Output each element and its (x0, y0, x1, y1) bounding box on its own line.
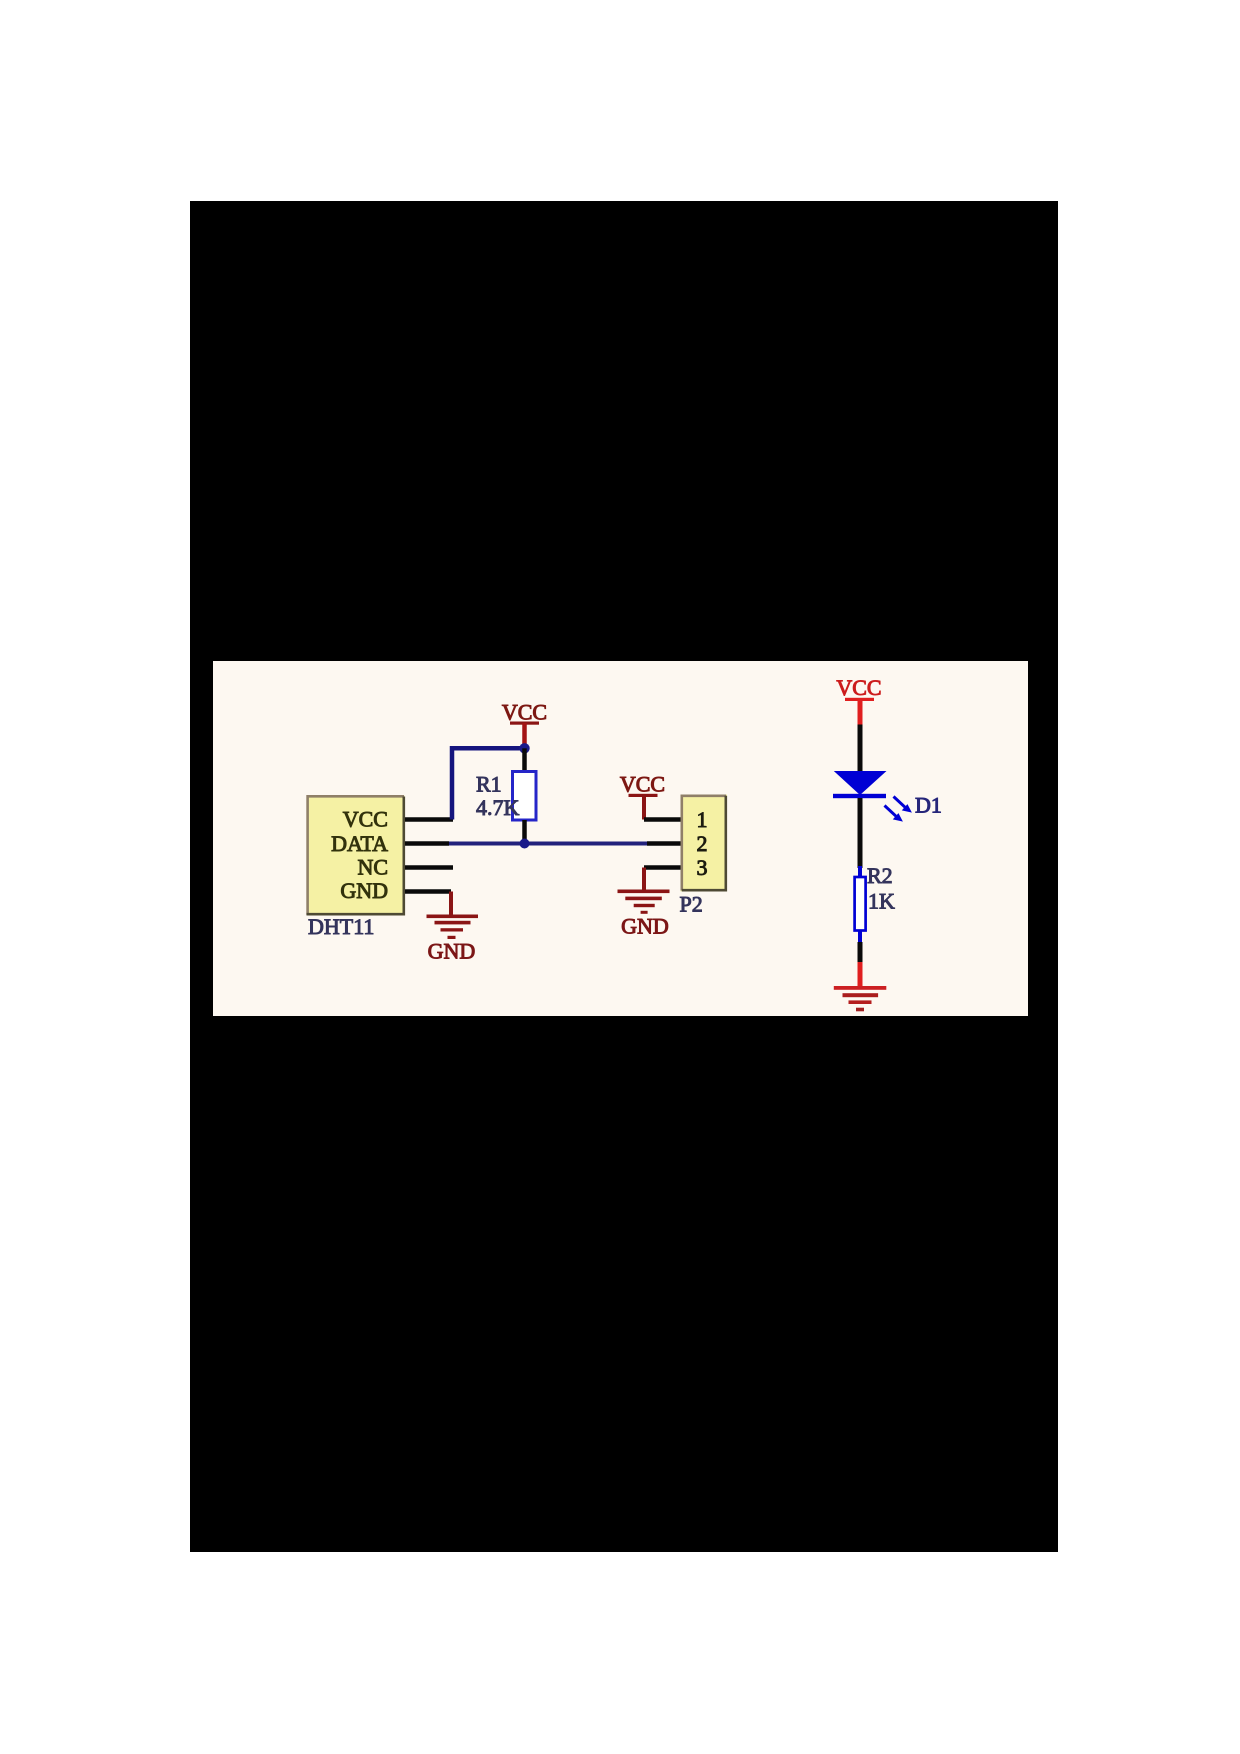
svg-text:NC: NC (357, 855, 388, 880)
svg-text:R2: R2 (867, 863, 893, 888)
svg-text:GND: GND (621, 914, 669, 939)
svg-text:VCC: VCC (620, 772, 665, 797)
svg-text:DATA: DATA (331, 831, 388, 856)
svg-text:P2: P2 (680, 892, 703, 917)
svg-text:3: 3 (697, 855, 708, 880)
svg-text:VCC: VCC (343, 807, 388, 832)
svg-text:DHT11: DHT11 (308, 914, 374, 939)
svg-text:1: 1 (697, 807, 708, 832)
svg-text:2: 2 (697, 831, 708, 856)
svg-text:GND: GND (340, 878, 388, 903)
svg-text:1K: 1K (868, 889, 895, 914)
svg-text:R1: R1 (476, 772, 502, 797)
svg-text:4.7K: 4.7K (476, 795, 520, 820)
svg-text:GND: GND (428, 939, 476, 964)
svg-text:VCC: VCC (502, 700, 547, 725)
svg-text:D1: D1 (915, 793, 942, 818)
svg-text:VCC: VCC (836, 675, 881, 700)
